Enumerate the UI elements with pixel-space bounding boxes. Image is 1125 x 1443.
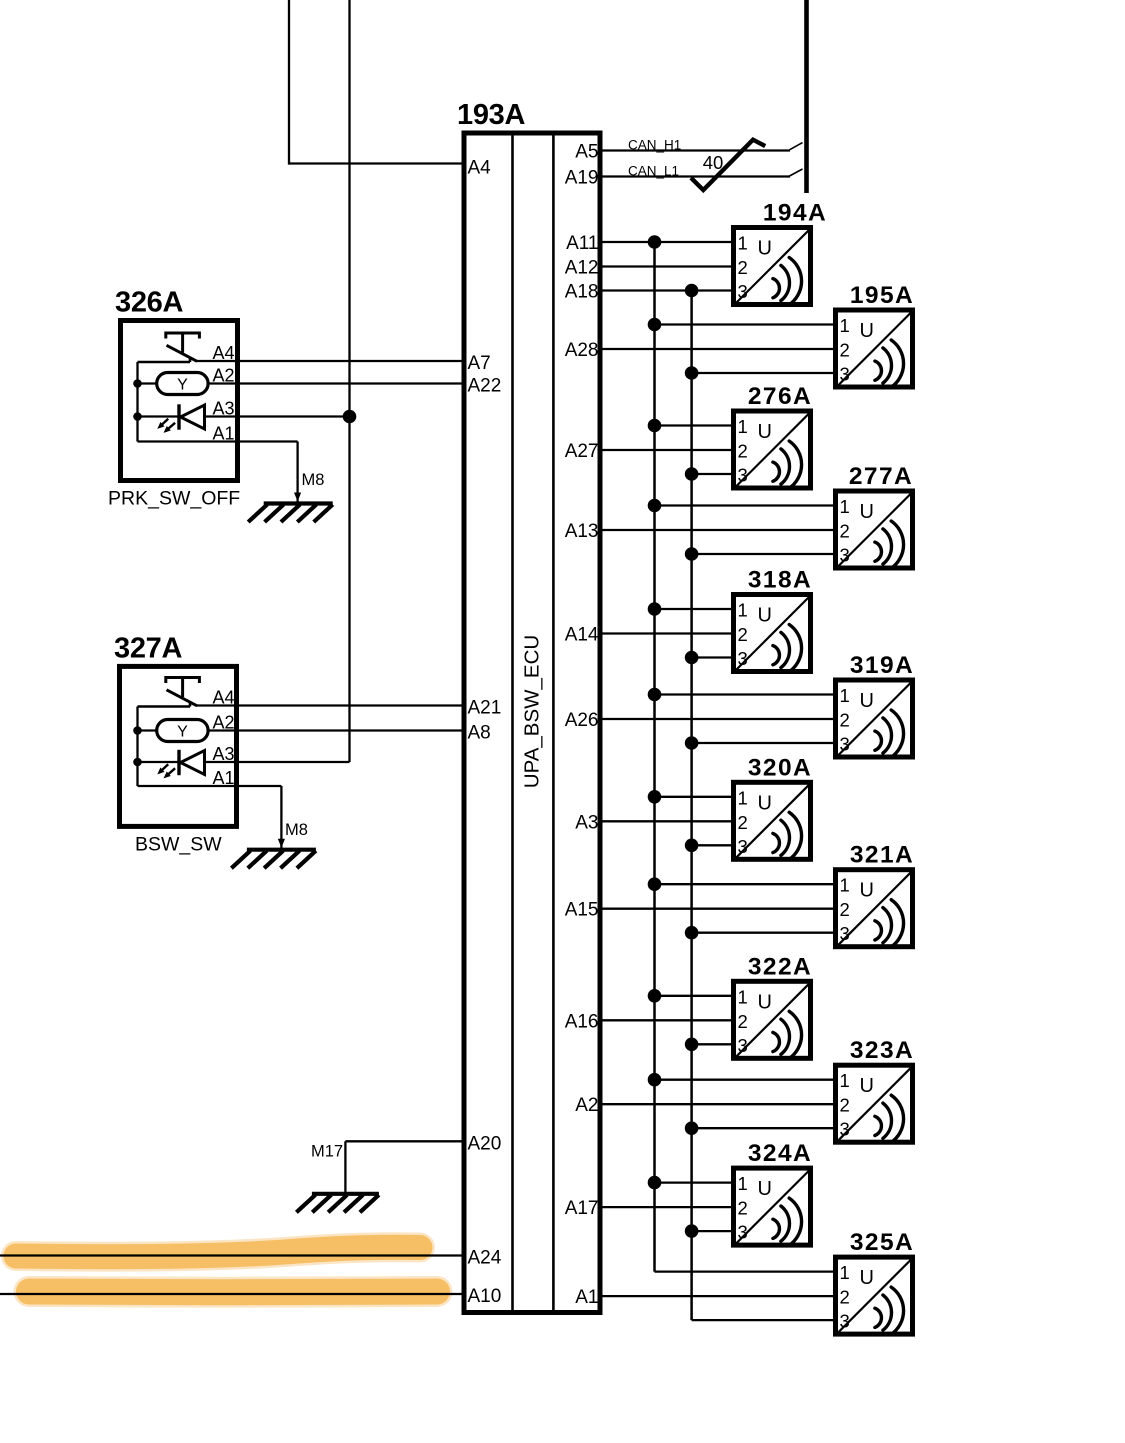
svg-text:318A: 318A (748, 567, 812, 594)
svg-text:A16: A16 (565, 1011, 599, 1032)
svg-text:40: 40 (703, 152, 724, 173)
svg-text:A10: A10 (468, 1286, 502, 1307)
svg-text:A19: A19 (565, 168, 599, 189)
svg-text:BSW_SW: BSW_SW (135, 833, 222, 855)
svg-text:A4: A4 (212, 343, 234, 363)
svg-text:A3: A3 (212, 399, 234, 419)
svg-text:A20: A20 (468, 1133, 502, 1154)
svg-text:A2: A2 (212, 713, 234, 733)
svg-text:M17: M17 (311, 1143, 343, 1161)
svg-text:320A: 320A (748, 754, 812, 781)
svg-text:326A: 326A (115, 287, 183, 319)
svg-text:A17: A17 (565, 1198, 599, 1219)
svg-text:UPA_BSW_ECU: UPA_BSW_ECU (521, 635, 544, 788)
svg-text:Y: Y (177, 723, 188, 740)
svg-text:193A: 193A (457, 99, 525, 131)
svg-text:319A: 319A (850, 652, 914, 679)
svg-text:A14: A14 (565, 625, 599, 646)
svg-text:Y: Y (177, 376, 188, 393)
svg-text:321A: 321A (850, 842, 914, 869)
svg-text:CAN_H1: CAN_H1 (628, 137, 681, 152)
svg-text:A11: A11 (566, 233, 598, 254)
svg-text:A7: A7 (468, 353, 491, 374)
svg-text:PRK_SW_OFF: PRK_SW_OFF (108, 488, 240, 510)
svg-text:CAN_L1: CAN_L1 (628, 163, 679, 178)
svg-text:A21: A21 (468, 698, 502, 719)
svg-text:A3: A3 (575, 812, 598, 833)
svg-text:A5: A5 (575, 142, 598, 163)
svg-text:M8: M8 (302, 471, 325, 489)
svg-text:A15: A15 (565, 900, 599, 921)
svg-text:A22: A22 (468, 376, 502, 397)
svg-text:A13: A13 (565, 521, 599, 542)
svg-text:195A: 195A (850, 282, 914, 309)
svg-text:A26: A26 (565, 710, 599, 731)
svg-text:A8: A8 (468, 723, 491, 744)
svg-text:A18: A18 (565, 282, 599, 303)
svg-text:A1: A1 (212, 768, 234, 788)
svg-text:A12: A12 (565, 258, 599, 279)
svg-text:M8: M8 (285, 821, 308, 839)
svg-text:276A: 276A (748, 383, 812, 410)
svg-text:194A: 194A (763, 200, 827, 227)
svg-text:A28: A28 (565, 340, 599, 361)
svg-text:277A: 277A (849, 463, 913, 490)
svg-text:A1: A1 (575, 1287, 598, 1308)
svg-text:A1: A1 (212, 424, 234, 444)
svg-text:A27: A27 (565, 441, 599, 462)
svg-text:A2: A2 (575, 1095, 598, 1116)
svg-text:323A: 323A (850, 1037, 914, 1064)
svg-text:A2: A2 (212, 366, 234, 386)
svg-text:A4: A4 (468, 158, 492, 179)
svg-text:A4: A4 (212, 688, 234, 708)
svg-text:324A: 324A (748, 1140, 812, 1167)
svg-text:327A: 327A (114, 632, 182, 664)
svg-text:322A: 322A (748, 953, 812, 980)
svg-text:A3: A3 (212, 744, 234, 764)
svg-text:325A: 325A (850, 1229, 914, 1256)
svg-text:A24: A24 (468, 1248, 502, 1269)
